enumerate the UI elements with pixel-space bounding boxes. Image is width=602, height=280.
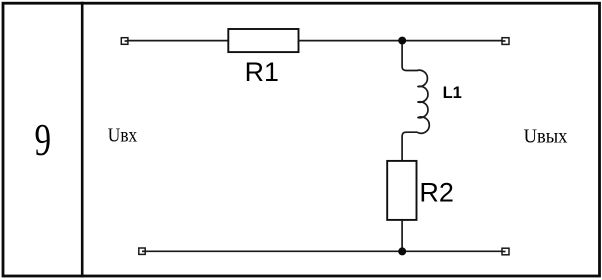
svg-text:R2: R2 xyxy=(419,178,454,208)
wire bottom rail xyxy=(145,250,502,252)
svg-text:9: 9 xyxy=(35,114,52,166)
junction node B xyxy=(398,247,406,255)
terminal input top xyxy=(121,38,128,45)
svg-text:R1: R1 xyxy=(245,57,279,87)
inductor L1 xyxy=(402,44,429,161)
svg-text:Uвых: Uвых xyxy=(524,125,568,147)
junction node A xyxy=(398,37,406,45)
terminal input bottom xyxy=(139,248,145,254)
wire top rail right xyxy=(299,40,503,42)
wire R2 to bottom rail xyxy=(401,220,403,252)
terminal output top xyxy=(502,38,509,45)
resistor R1 xyxy=(228,29,298,52)
wire top rail left xyxy=(128,40,229,42)
resistor R2 xyxy=(387,161,416,220)
svg-text:Uвх: Uвх xyxy=(108,125,137,147)
svg-text:L1: L1 xyxy=(443,84,462,102)
terminal output bottom xyxy=(502,248,509,255)
